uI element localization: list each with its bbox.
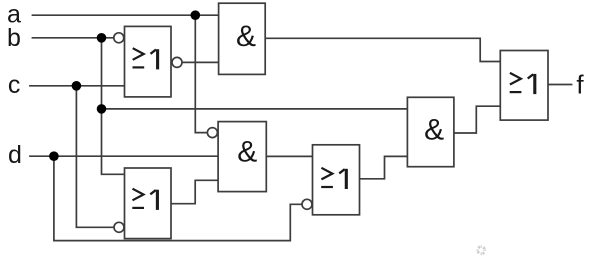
wire branch from d down along bottom up to U5 inverted input [54,156,302,240]
wire U4 output to U3 input [171,180,218,203]
wire input a horizontal to U1 [32,14,219,16]
svg-text:&: & [237,136,257,169]
wire branch from c down to U4 inverted input [76,86,114,228]
wire U1 output to U7 input [265,38,500,61]
wire input c horizontal to U2 input [29,85,124,87]
wire U5 output to U6 input [360,156,408,178]
svg-text:&: & [236,20,256,53]
wire input b horizontal to U2 inverted input [32,37,114,39]
junction dot on c line [72,81,82,91]
svg-text:b: b [7,24,21,52]
junction dot node B2 [97,104,107,114]
svg-text:c: c [8,71,21,99]
wire input d horizontal to U3 input [29,155,218,157]
or-gate U7 (>=1) [500,51,548,121]
and-gate U3 (&) [218,122,266,192]
svg-text:d: d [8,141,22,169]
or-gate U4 (>=1) [125,168,172,239]
inverter bubble on U2 output [172,57,182,67]
and-gate U1 (&) [219,3,266,74]
junction dot on a line [191,10,201,20]
wire U6 output to U7 input [454,106,500,133]
wire U2 inverted output to U1 input [182,61,219,63]
svg-text:&: & [424,114,444,147]
wire branch from b down across to node B2 [102,38,125,175]
inverter bubble on U5 input from d [302,199,312,209]
wire U7 output to f [548,84,572,86]
watermark spinner [477,246,486,255]
junction dot on b line [97,33,107,43]
inverter bubble on U2 input from b [114,33,124,43]
inverter bubble on U4 input from c [114,222,124,232]
junction dot on d line [49,151,59,161]
and-gate U6 (&) [407,97,454,166]
svg-text:f: f [576,69,584,99]
or-gate U2 (>=1) [125,26,172,97]
wire branch from a down to U3 inverted input [195,15,207,132]
wire U3 output to U5 input [266,155,312,157]
wire node B2 horizontal to U6 input [102,108,408,110]
or-gate U5 (>=1) [313,145,360,215]
inverter bubble on U3 input from a [207,128,217,138]
